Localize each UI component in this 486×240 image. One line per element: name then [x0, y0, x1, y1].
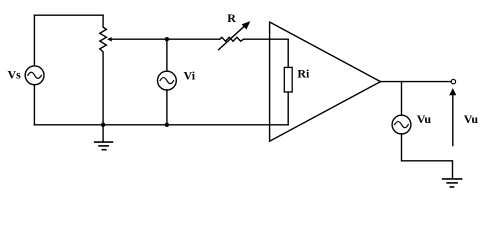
svg-text:Vs: Vs [8, 67, 22, 81]
svg-text:Vu: Vu [417, 112, 432, 126]
svg-text:R: R [227, 11, 236, 25]
svg-text:Vu: Vu [464, 112, 479, 126]
svg-text:Vi: Vi [184, 69, 196, 83]
svg-text:Ri: Ri [297, 66, 310, 80]
